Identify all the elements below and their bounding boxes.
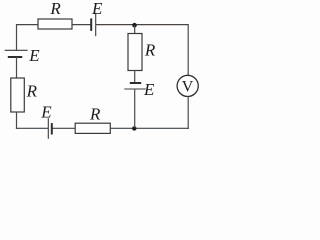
svg-text:R: R: [144, 41, 156, 60]
wire: middle branch upper segment: [134, 25, 136, 34]
battery E (middle): short thick plate: [130, 82, 141, 84]
wire: right side lower segment: [187, 96, 189, 129]
battery E (top): long thin plate: [95, 13, 97, 37]
wire: middle segment between resistor and battery: [134, 71, 136, 84]
svg-text:R: R: [89, 105, 101, 124]
resistor R (middle): [128, 34, 142, 71]
node: bottom junction dot: [132, 126, 136, 130]
resistor R (bottom): [75, 123, 110, 133]
wire: middle branch lower segment: [134, 89, 136, 128]
resistor R (left): [11, 78, 24, 112]
battery E (bottom): long thin plate: [47, 118, 49, 139]
battery E (bottom): short thick plate: [51, 123, 53, 134]
battery E (middle): long thin plate: [124, 88, 146, 90]
battery E (left): short thick plate: [8, 56, 22, 58]
wire: right side upper segment: [187, 24, 189, 75]
wire: bottom right segment: [110, 127, 189, 129]
svg-text:R: R: [49, 0, 61, 18]
node: top junction dot: [132, 23, 137, 28]
svg-text:E: E: [143, 80, 155, 99]
svg-text:V: V: [182, 79, 194, 96]
wire: bottom left segment: [16, 127, 48, 129]
wire: top right segment: [96, 24, 189, 26]
resistor R (top): [38, 19, 72, 29]
svg-text:R: R: [26, 82, 38, 101]
wire: left side upper segment: [16, 24, 18, 50]
svg-text:E: E: [40, 102, 52, 121]
wire: left middle segment: [16, 57, 18, 78]
wire: bottom middle segment: [53, 127, 76, 129]
wire: top-left horizontal segment: [16, 24, 39, 26]
battery E (top): short thick plate: [90, 18, 92, 31]
battery E (left): long thin plate: [5, 49, 28, 51]
svg-text:E: E: [28, 46, 40, 65]
svg-text:E: E: [91, 0, 103, 18]
voltmeter V: [177, 75, 198, 96]
wire: top middle segment: [72, 24, 91, 26]
wire: left lower segment: [16, 112, 18, 129]
